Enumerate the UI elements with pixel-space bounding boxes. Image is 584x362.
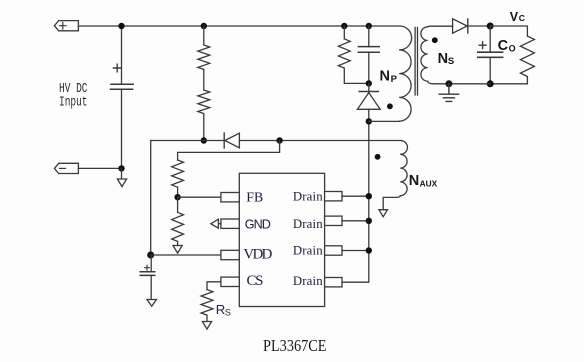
svg-text:Drain: Drain <box>293 217 323 231</box>
label Rs <box>216 302 231 318</box>
svg-text:P: P <box>391 74 398 85</box>
wire VDD to pin <box>151 254 221 256</box>
svg-text:S: S <box>225 308 231 318</box>
pin VDD box <box>221 250 239 259</box>
resistor R1 <box>198 26 210 69</box>
winding NP <box>399 26 411 121</box>
node drain3 <box>366 247 372 253</box>
terminal minus input <box>54 163 78 173</box>
ground arrow FB <box>173 246 182 254</box>
pin CS box <box>221 277 239 286</box>
wire aux left <box>151 140 225 142</box>
wire NP bottom <box>369 120 399 122</box>
resistor snubber <box>338 26 368 83</box>
node Co bottom <box>487 80 494 87</box>
core <box>415 28 417 96</box>
node FB junction <box>174 194 180 200</box>
node VDD <box>147 252 154 259</box>
svg-text:Drain: Drain <box>293 244 323 258</box>
wire FB to pin <box>178 196 221 198</box>
svg-text:GND: GND <box>245 217 271 231</box>
wire drain1 <box>342 195 369 197</box>
wire output bottom <box>449 83 490 85</box>
phase dot NP <box>387 103 393 109</box>
ground arrow VDD cap <box>147 300 156 307</box>
phase dot NS <box>432 37 438 43</box>
resistor R3 <box>172 160 184 197</box>
svg-text:N: N <box>438 51 448 67</box>
svg-text:FB: FB <box>246 189 263 204</box>
resistor R2 <box>198 69 210 140</box>
diode output <box>453 19 491 33</box>
svg-text:PL3367CE: PL3367CE <box>263 336 327 355</box>
wire Vc to load <box>490 26 527 36</box>
svg-text:Drain: Drain <box>293 274 323 288</box>
node snubber C top <box>366 23 372 29</box>
capacitor Co <box>478 26 503 84</box>
resistor R4 <box>172 197 184 245</box>
node Vc <box>487 23 494 30</box>
node snubber R top <box>341 23 347 29</box>
resistor load <box>490 36 534 84</box>
wire FB feed <box>178 141 280 161</box>
label NP <box>380 69 398 85</box>
pin Drain2 box <box>325 216 342 225</box>
capacitor Cvdd <box>140 255 155 299</box>
wire top rail <box>78 25 400 27</box>
wire drain bus <box>342 121 369 282</box>
pin GND box <box>221 219 239 228</box>
wire aux right <box>239 140 401 142</box>
svg-text:Input: Input <box>59 96 88 111</box>
label HV DC Input <box>59 82 88 111</box>
svg-text:Drain: Drain <box>293 189 323 203</box>
label NAUX <box>409 173 438 189</box>
earth ground output <box>439 84 458 102</box>
svg-text:S: S <box>448 56 454 67</box>
svg-text:O: O <box>509 44 516 54</box>
winding NAUX <box>383 141 407 210</box>
wire minus rail <box>78 167 121 169</box>
ground arrow Rs <box>202 322 211 330</box>
node FB tap <box>276 137 282 143</box>
node divider bottom <box>201 137 207 143</box>
diode D2 <box>224 133 239 148</box>
node cap bottom <box>118 165 124 171</box>
svg-text:N: N <box>409 173 419 189</box>
op IC U1 PL3367CE body <box>239 173 324 306</box>
gnd arrow on GND pin <box>211 219 221 228</box>
label NS <box>438 51 455 67</box>
ground arrow NAUX <box>379 210 388 217</box>
capacitor snubber <box>358 26 379 83</box>
resistor Rs <box>201 290 213 322</box>
phase dot NAUX <box>375 154 381 160</box>
diode clamp <box>357 83 380 121</box>
svg-text:C: C <box>519 13 525 23</box>
label Co <box>498 38 516 54</box>
capacitor Cin <box>111 26 134 168</box>
label Vc <box>510 10 525 24</box>
node drain top <box>366 118 372 124</box>
wire drain2 <box>342 220 369 222</box>
node drain1 <box>366 193 372 199</box>
terminal plus input <box>54 21 78 31</box>
ground arrow input <box>117 168 126 186</box>
svg-text:V: V <box>510 10 519 24</box>
svg-text:AUX: AUX <box>420 179 438 189</box>
wire NS top <box>428 25 453 28</box>
wire VDD drop <box>150 141 152 256</box>
wire CS <box>207 282 221 290</box>
node snubber bottom <box>366 80 372 86</box>
node NS ground <box>445 80 452 87</box>
wire drain3 <box>342 250 369 252</box>
node cap top <box>118 23 124 29</box>
svg-text:VDD: VDD <box>243 247 272 263</box>
svg-text:CS: CS <box>247 273 264 289</box>
node drain2 <box>366 218 372 224</box>
svg-text:C: C <box>498 38 509 54</box>
pin Drain1 box <box>325 192 342 201</box>
pin FB box <box>221 193 239 202</box>
node divider top <box>201 23 207 29</box>
pin Drain3 box <box>325 246 342 255</box>
svg-text:N: N <box>380 69 390 85</box>
pin Drain4 box <box>325 278 342 287</box>
winding NS <box>421 27 449 84</box>
